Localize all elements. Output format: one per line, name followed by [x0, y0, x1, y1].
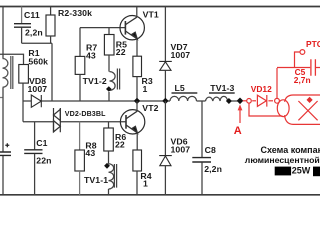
capacitor C2 polarity plus: [5, 143, 9, 147]
capacitor C1: [24, 150, 42, 154]
diode VD6: [159, 156, 172, 166]
svg-text:C8: C8: [205, 145, 216, 155]
svg-text:1: 1: [143, 84, 148, 94]
diode VD8: [31, 95, 41, 107]
resistor R4: [133, 150, 142, 171]
svg-text:25W: 25W: [292, 166, 311, 176]
svg-text:L5: L5: [175, 83, 185, 93]
wire VT1 collector: [136, 7, 138, 18]
wire lamp bypass bottom: [249, 103, 283, 116]
node lamp pin 2 circle: [275, 98, 280, 103]
transistor VT2: [120, 110, 144, 134]
resistor R1: [19, 65, 29, 84]
svg-text:22: 22: [115, 139, 125, 149]
svg-text:люминесцентной: люминесцентной: [245, 155, 320, 165]
wire VT2 emitter to R4: [136, 133, 138, 150]
transformer winding TV1-3: [206, 96, 228, 101]
svg-text:1007: 1007: [171, 50, 191, 60]
resistor R5: [104, 35, 114, 56]
wire top rail: [0, 6, 320, 8]
wire node A to lamp pin: [243, 100, 247, 102]
wire bottom rail: [0, 194, 320, 196]
resistor R2: [46, 15, 55, 36]
svg-text:A: A: [234, 125, 242, 137]
transformer TV1-2 core: [117, 69, 119, 90]
svg-text:R2-330k: R2-330k: [58, 8, 92, 18]
caption redaction box 1: [275, 167, 291, 176]
svg-text:TV1-1: TV1-1: [84, 175, 108, 185]
svg-text:1007: 1007: [171, 144, 191, 154]
transformer T1 primary winding: [3, 59, 8, 88]
wire cropped fragment left edge: [0, 97, 3, 99]
node TV1-2 polarity dot: [106, 86, 112, 92]
svg-text:C11: C11: [24, 10, 40, 20]
transformer TV1-3 core: [209, 92, 235, 94]
wire R3 bottom: [136, 77, 138, 101]
svg-text:560k: 560k: [28, 56, 48, 66]
transformer TV1-1 core: [114, 164, 116, 188]
svg-text:1: 1: [143, 179, 148, 189]
wire PTC terminal lead: [295, 52, 300, 68]
svg-text:43: 43: [85, 148, 95, 158]
wire C8 top lead: [201, 101, 203, 157]
resistor R6: [104, 128, 114, 151]
wire mid rail y101: [23, 100, 243, 102]
capacitor C5: [311, 59, 316, 76]
inductor L5 winding: [170, 96, 197, 101]
wire R6 top lead: [108, 122, 110, 128]
wire VT1 emitter to R3: [136, 39, 138, 56]
wire VD6 bottom: [164, 166, 166, 195]
svg-text:C1: C1: [36, 138, 47, 148]
node lamp pin 1 circle: [247, 99, 252, 104]
node junction VD7 mid: [162, 98, 168, 104]
svg-text:VD2-DB3BL: VD2-DB3BL: [65, 110, 106, 118]
wire VD6 top lead: [164, 101, 166, 155]
wire R1 bottom: [22, 83, 24, 122]
caption redaction box 2: [313, 167, 320, 177]
svg-text:43: 43: [86, 50, 96, 60]
transformer winding TV1-2: [110, 72, 116, 91]
wire C1 bottom lead: [34, 154, 36, 195]
wire C1 top lead: [34, 122, 36, 150]
svg-text:22n: 22n: [36, 156, 51, 166]
wire R7 bottom: [79, 74, 81, 101]
wire R2 top lead: [50, 7, 52, 16]
svg-text:1007: 1007: [28, 84, 48, 94]
transistor VT1: [120, 16, 144, 40]
transformer winding TV1-1: [109, 164, 114, 189]
resistor R3: [133, 56, 142, 76]
lamp filament X: [298, 101, 317, 120]
node junction emitter/collector mid: [134, 98, 140, 104]
node A junction: [237, 98, 244, 105]
capacitor C11: [14, 24, 31, 28]
node PTC terminal circle: [300, 50, 305, 55]
wire R4 bottom: [136, 171, 138, 195]
svg-text:2,2n: 2,2n: [25, 28, 43, 38]
wire VT1 base rail: [80, 28, 125, 57]
diode VD12: [257, 95, 266, 107]
svg-text:PTC: PTC: [306, 39, 320, 49]
svg-text:22: 22: [116, 47, 126, 57]
inductor L5 core: [172, 92, 198, 94]
transformer T1 core: [11, 56, 13, 89]
svg-text:2,7n: 2,7n: [294, 75, 311, 85]
svg-text:TV1-3: TV1-3: [210, 83, 234, 93]
svg-text:VD12: VD12: [251, 84, 272, 94]
wire C8 bottom lead: [201, 162, 203, 194]
svg-text:Схема компактной: Схема компактной: [261, 145, 320, 155]
capacitor C2 electrolytic plates: [0, 152, 11, 155]
svg-text:VT1: VT1: [143, 9, 159, 19]
wire diac rail y121.7: [23, 121, 126, 123]
wire R8 bottom: [79, 171, 81, 195]
node TV1-3 polarity dot: [226, 98, 232, 104]
wire VD7 bottom: [164, 70, 166, 101]
svg-text:2,2n: 2,2n: [204, 164, 222, 174]
wire C5 rail: [277, 67, 320, 69]
wire R8 top lead: [79, 122, 81, 150]
wire R5 to TV1-2: [108, 55, 110, 72]
svg-text:VT2: VT2: [142, 103, 158, 113]
resistor R7: [75, 56, 85, 74]
wire input to R1: [0, 54, 24, 64]
wire R5 top lead: [108, 28, 110, 35]
wire R2 bottom / junction to mid: [22, 36, 52, 101]
diode VD7: [159, 61, 172, 70]
wire VT2 collector: [136, 101, 138, 111]
node TV1-1 polarity dot: [104, 163, 110, 169]
capacitor C8: [192, 158, 211, 162]
wire C11 top lead: [21, 7, 23, 24]
wire VD7 top lead: [164, 7, 166, 62]
wire dash-dot to VD12: [252, 100, 256, 102]
svg-text:TV1-2: TV1-2: [83, 76, 107, 86]
wire dash VD12 to pin 2: [268, 100, 273, 102]
resistor R8: [75, 150, 85, 171]
wire left vertical: [2, 7, 4, 195]
wire C5 branch down: [276, 68, 278, 98]
wire TV1-2 bottom: [108, 92, 110, 101]
wire R6 to TV1-1: [108, 151, 110, 164]
lamp tube outline: [285, 95, 320, 124]
lamp end cap circle: [277, 100, 289, 117]
diac VD2: [54, 108, 61, 132]
wire C11 bottom lead: [21, 28, 23, 44]
wire TV1-1 bottom: [108, 189, 110, 195]
node A arrow: [239, 109, 241, 123]
node lamp dot diamond: [307, 97, 313, 103]
